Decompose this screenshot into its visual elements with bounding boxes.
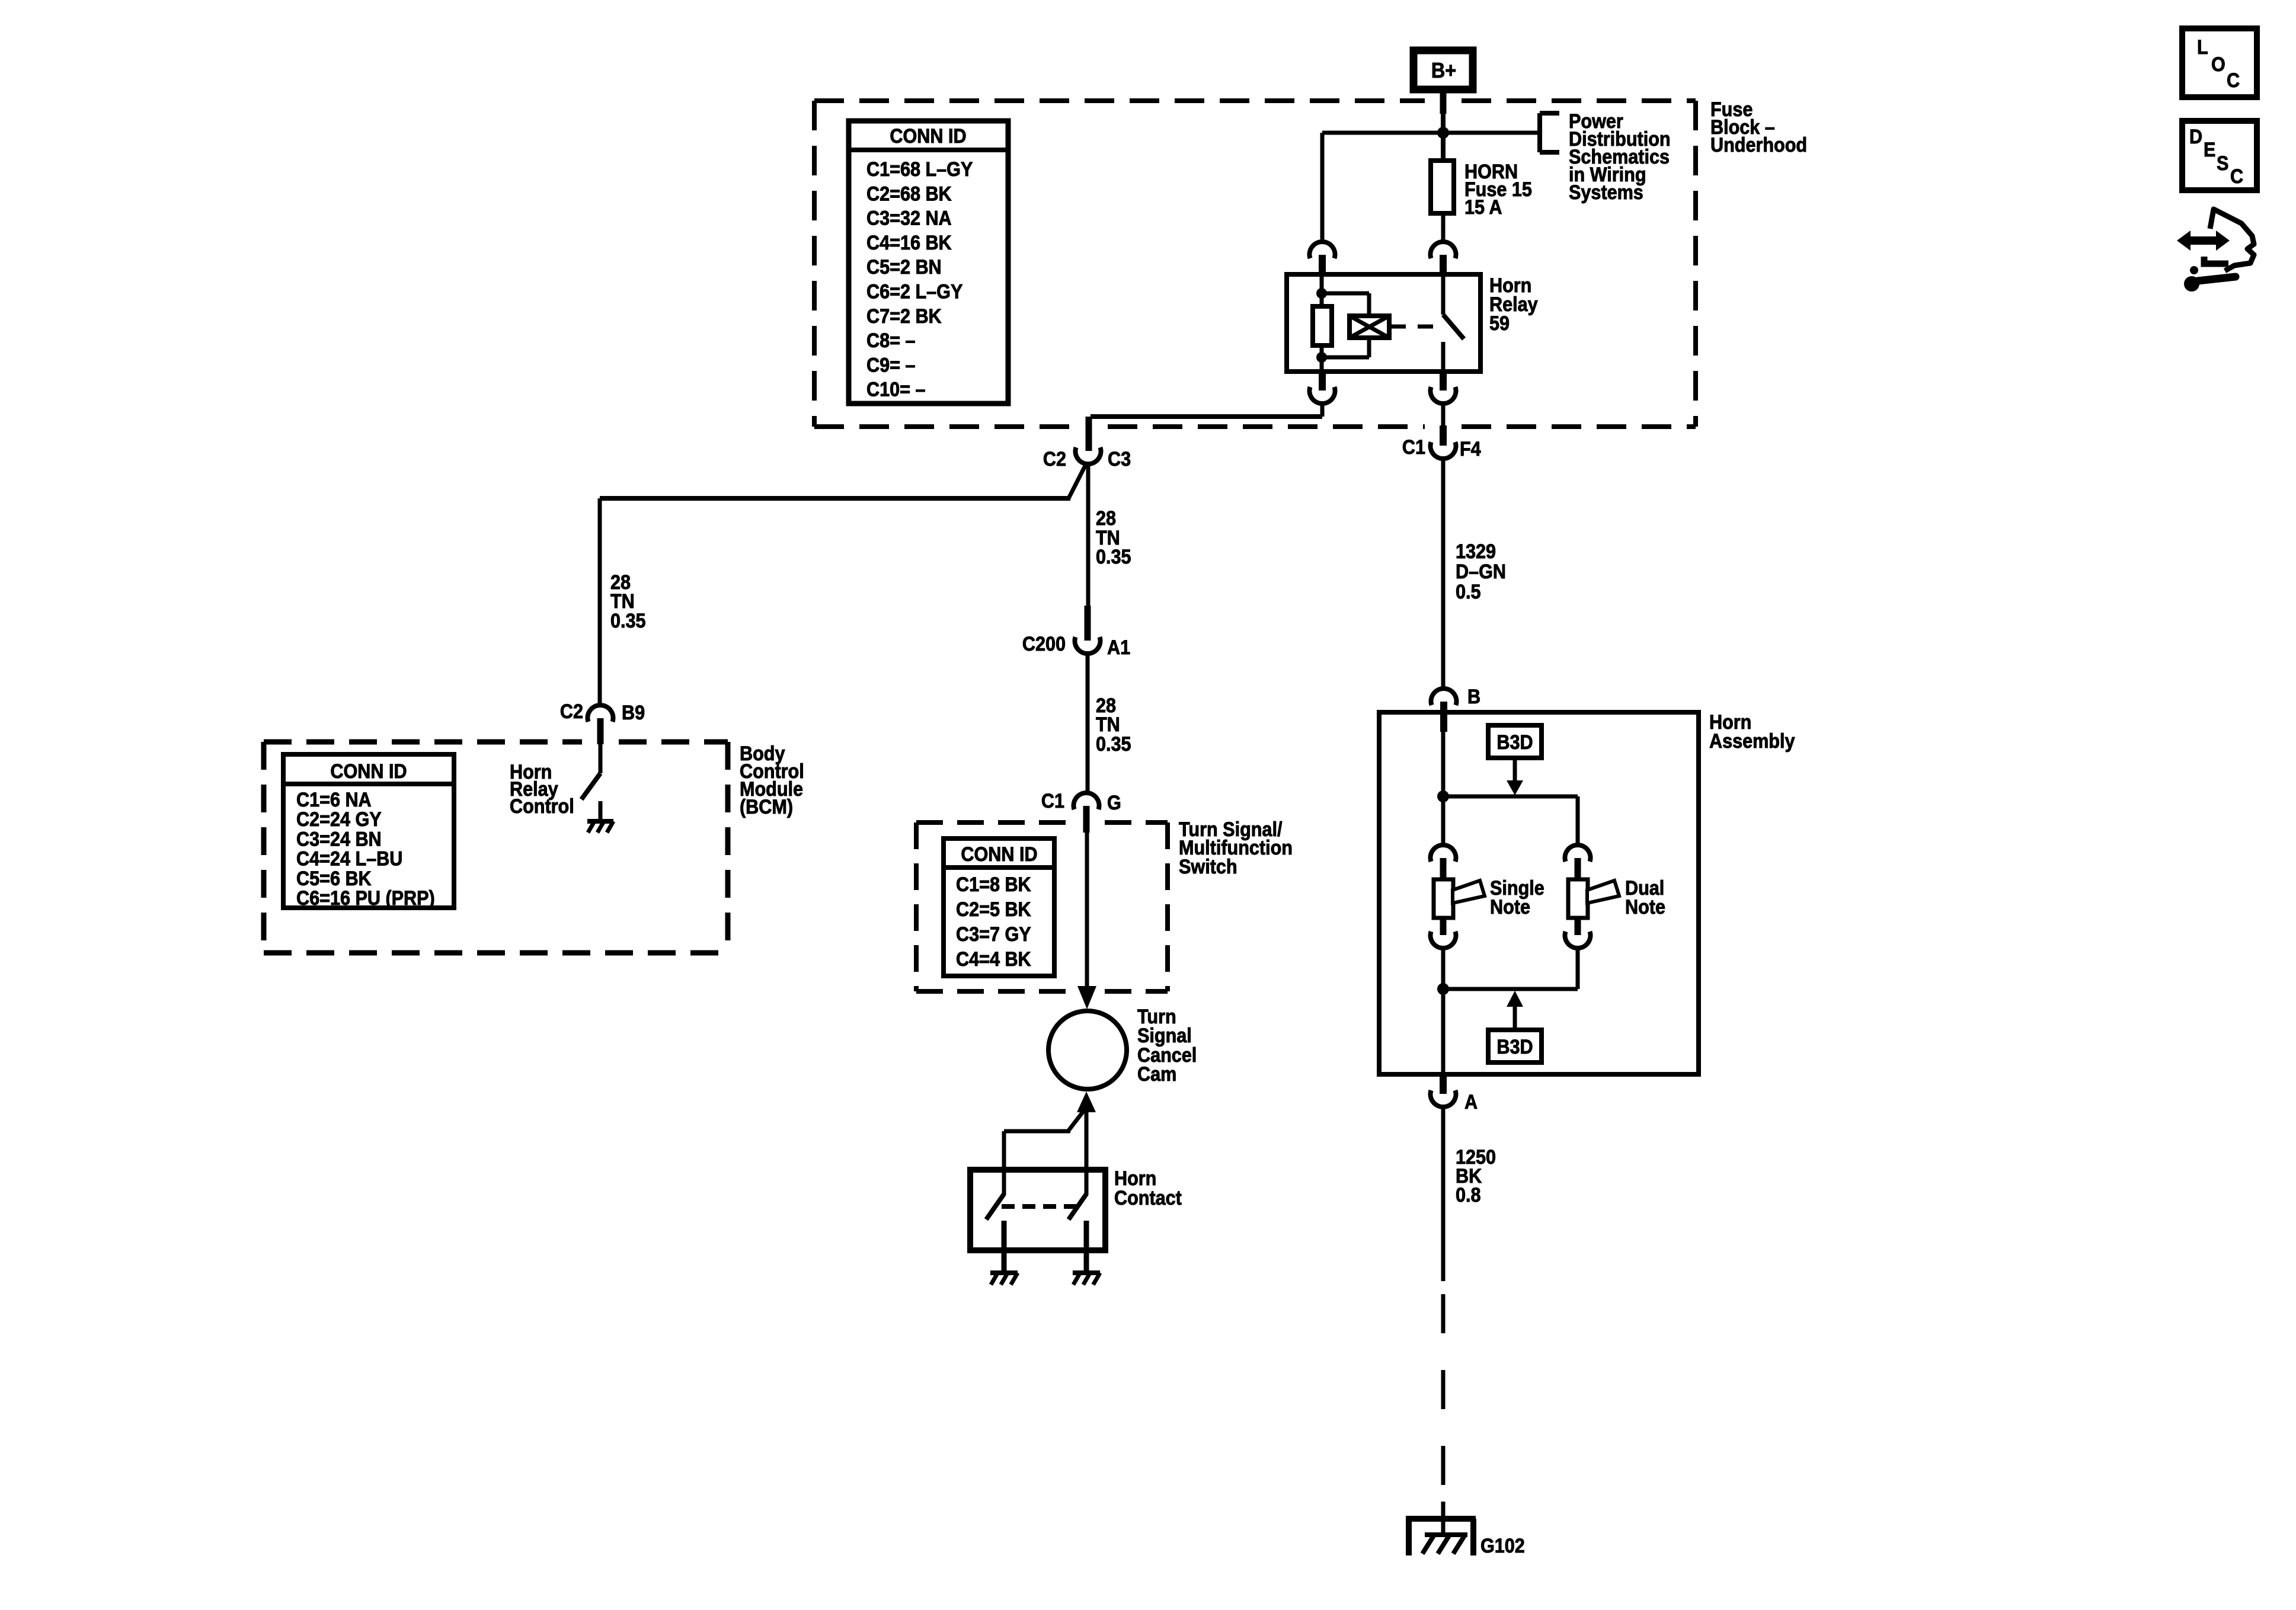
svg-text:O: O xyxy=(2211,53,2225,76)
svg-text:B9: B9 xyxy=(622,702,645,724)
svg-text:C3: C3 xyxy=(1108,448,1131,470)
svg-text:F4: F4 xyxy=(1460,438,1481,460)
svg-text:C5=2 BN: C5=2 BN xyxy=(866,256,942,279)
svg-text:G102: G102 xyxy=(1480,1535,1525,1557)
svg-text:G: G xyxy=(1107,792,1121,814)
svg-text:C: C xyxy=(2227,69,2240,92)
svg-text:C2=24 GY: C2=24 GY xyxy=(296,808,382,831)
svg-text:Control: Control xyxy=(510,795,574,818)
svg-text:C7=2 BK: C7=2 BK xyxy=(866,305,942,327)
svg-text:C5=6 BK: C5=6 BK xyxy=(296,867,372,889)
svg-text:C1: C1 xyxy=(1402,436,1425,459)
svg-text:Note: Note xyxy=(1625,896,1665,918)
svg-text:Switch: Switch xyxy=(1179,856,1237,878)
svg-text:0.5: 0.5 xyxy=(1456,581,1481,603)
svg-text:C4=16 BK: C4=16 BK xyxy=(866,231,952,254)
svg-text:L: L xyxy=(2197,36,2208,59)
svg-text:C3=32 NA: C3=32 NA xyxy=(866,207,952,229)
svg-text:1329: 1329 xyxy=(1456,540,1496,563)
svg-text:S: S xyxy=(2217,152,2228,175)
svg-text:C9= –: C9= – xyxy=(866,354,915,376)
svg-text:C2=5 BK: C2=5 BK xyxy=(956,898,1031,921)
svg-text:CONN ID: CONN ID xyxy=(330,760,407,783)
svg-text:Systems: Systems xyxy=(1569,181,1643,204)
svg-text:C10= –: C10= – xyxy=(866,378,925,401)
svg-text:(BCM): (BCM) xyxy=(740,796,793,818)
svg-text:C6=2 L–GY: C6=2 L–GY xyxy=(866,280,963,303)
svg-text:C: C xyxy=(2230,165,2243,188)
svg-text:Note: Note xyxy=(1490,896,1530,918)
svg-text:C1=8 BK: C1=8 BK xyxy=(956,873,1031,896)
svg-text:C1: C1 xyxy=(1041,790,1064,812)
svg-text:A1: A1 xyxy=(1107,636,1130,659)
svg-text:C2: C2 xyxy=(1043,448,1066,470)
svg-text:C200: C200 xyxy=(1022,633,1066,655)
svg-text:C4=4 BK: C4=4 BK xyxy=(956,948,1031,971)
svg-text:Cam: Cam xyxy=(1137,1063,1176,1086)
svg-text:B: B xyxy=(1467,686,1480,708)
svg-text:D: D xyxy=(2189,126,2202,148)
svg-text:C2: C2 xyxy=(560,700,583,723)
svg-text:Assembly: Assembly xyxy=(1709,730,1795,753)
svg-text:59: 59 xyxy=(1489,312,1510,335)
svg-text:C6=16 PU (PRP): C6=16 PU (PRP) xyxy=(296,887,435,910)
svg-text:B3D: B3D xyxy=(1496,1036,1533,1058)
svg-text:C1=68 L–GY: C1=68 L–GY xyxy=(866,158,973,181)
svg-text:CONN ID: CONN ID xyxy=(890,125,966,148)
svg-text:0.35: 0.35 xyxy=(1096,546,1131,568)
svg-text:E: E xyxy=(2204,139,2215,161)
svg-text:C4=24 L–BU: C4=24 L–BU xyxy=(296,847,402,870)
svg-text:B+: B+ xyxy=(1431,59,1456,82)
svg-text:D–GN: D–GN xyxy=(1456,561,1506,583)
svg-text:0.8: 0.8 xyxy=(1456,1184,1481,1206)
svg-text:A: A xyxy=(1464,1091,1478,1113)
svg-text:C3=24 BN: C3=24 BN xyxy=(296,828,382,850)
svg-text:Contact: Contact xyxy=(1114,1187,1182,1209)
svg-text:CONN ID: CONN ID xyxy=(961,843,1037,866)
svg-text:Underhood: Underhood xyxy=(1710,134,1807,156)
svg-text:C8= –: C8= – xyxy=(866,329,915,352)
svg-text:C3=7 GY: C3=7 GY xyxy=(956,923,1031,946)
svg-text:B3D: B3D xyxy=(1496,731,1533,754)
svg-text:C1=6 NA: C1=6 NA xyxy=(296,789,372,811)
svg-text:0.35: 0.35 xyxy=(610,610,646,632)
svg-text:0.35: 0.35 xyxy=(1096,733,1131,756)
svg-text:C2=68 BK: C2=68 BK xyxy=(866,183,952,205)
svg-text:15 A: 15 A xyxy=(1464,196,1502,219)
